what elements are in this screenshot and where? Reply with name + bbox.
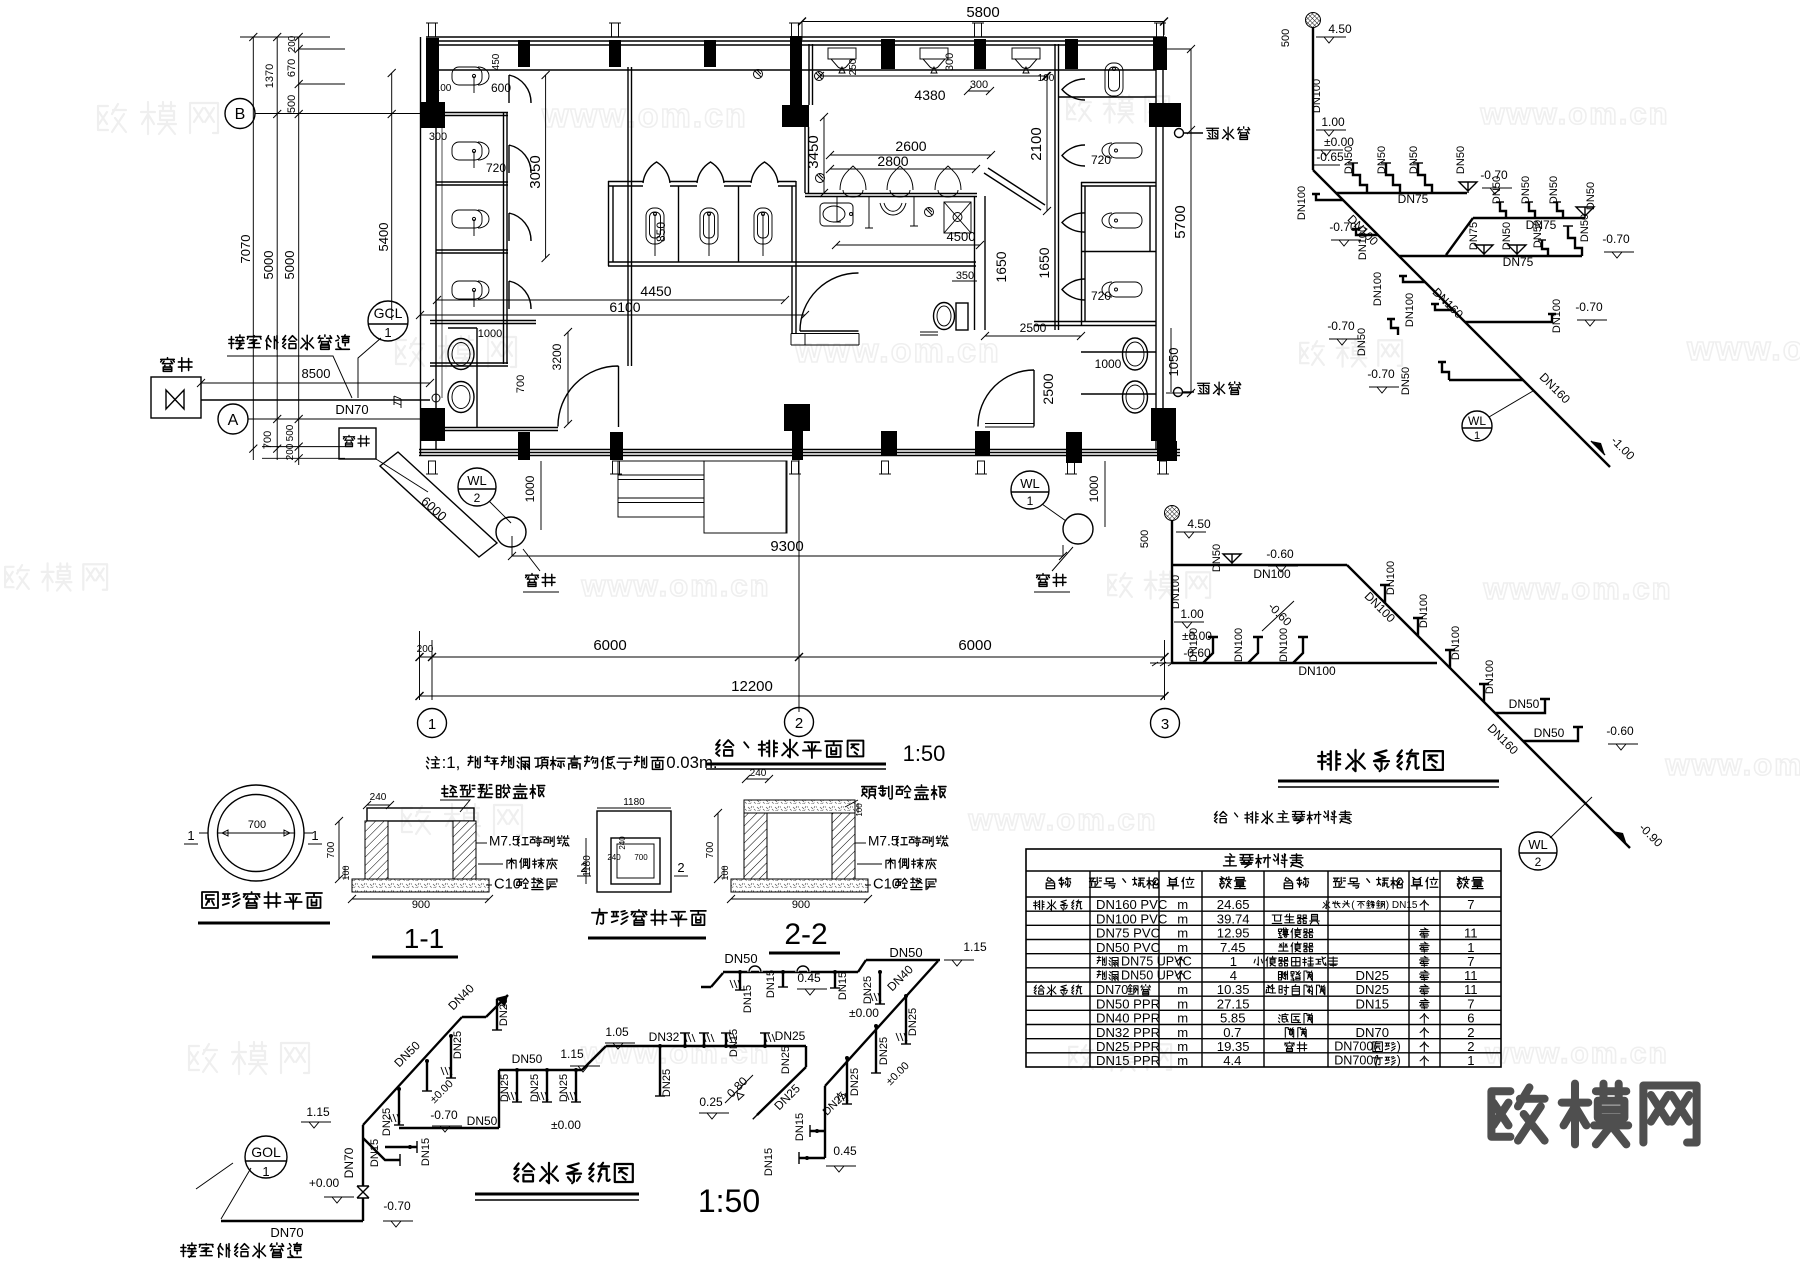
svg-text:DN50: DN50 [889,945,922,960]
svg-text:2: 2 [795,715,803,732]
svg-text:DN100: DN100 [1484,660,1496,694]
svg-text:240: 240 [370,792,387,803]
svg-text:DN100: DN100 [1170,575,1182,609]
svg-text:4450: 4450 [640,283,671,299]
svg-text:DN50: DN50 [1548,176,1560,204]
WL/2 bubble at plan [458,468,496,506]
svg-text:0.45: 0.45 [797,971,821,985]
svg-text:500: 500 [286,95,298,113]
svg-text:DN25: DN25 [775,1029,806,1043]
svg-text:DN50 PVC: DN50 PVC [1096,940,1160,955]
svg-text:DN25: DN25 [878,1037,890,1065]
svg-text:-0.70: -0.70 [383,1199,411,1213]
svg-text:4.4: 4.4 [1223,1053,1241,1068]
svg-text:DN100: DN100 [1278,628,1290,662]
svg-text:m: m [1177,1039,1188,1054]
svg-text:DN25 PPR: DN25 PPR [1096,1039,1160,1054]
svg-text:500: 500 [285,424,296,441]
label rain pipe 2 [1198,383,1210,394]
WL2 diagonal stubs [1380,585,1390,603]
svg-text:12.95: 12.95 [1217,926,1250,941]
svg-text:DN15: DN15 [1356,996,1389,1011]
svg-text:6100: 6100 [609,299,640,315]
svg-text:DN25: DN25 [862,976,874,1004]
svg-text:700: 700 [705,841,716,858]
svg-text:900: 900 [792,899,810,911]
svg-text:7: 7 [1467,996,1474,1011]
label well top-left [161,358,175,372]
svg-text:DN15: DN15 [765,970,777,998]
top dimension 5800 [802,22,1164,41]
svg-text:1: 1 [384,325,391,340]
svg-text:2500: 2500 [1040,373,1056,404]
left room urinal fixtures [452,67,489,93]
svg-text:m: m [1177,982,1188,997]
1000 drops [541,461,1105,530]
WL2 bubble [1519,832,1557,870]
svg-text:670: 670 [286,59,298,77]
bottom dimension rows [419,631,1165,712]
squat pans [646,208,664,256]
svg-text:www.om.cn: www.om.cn [580,568,770,603]
svg-text:250: 250 [848,58,859,75]
bottom right leg [799,1086,825,1158]
svg-text:DN70: DN70 [335,402,368,417]
svg-text:DN25: DN25 [529,1074,541,1102]
svg-text:1.15: 1.15 [560,1047,584,1061]
svg-text:900: 900 [412,899,430,911]
svg-text:1: 1 [1230,954,1237,969]
svg-text:11: 11 [1464,982,1478,997]
svg-text:11: 11 [1464,926,1478,941]
svg-text:1: 1 [1467,1053,1474,1068]
svg-text:-0.70: -0.70 [1367,367,1395,381]
svg-text:m: m [1177,940,1188,955]
note [427,757,440,769]
svg-text:DN15: DN15 [763,1148,775,1176]
title plan [716,740,733,756]
light watermarks [5,95,1800,1074]
WL1 DN100 stub [1312,194,1343,200]
svg-text:DN50: DN50 [1534,726,1565,740]
svg-text:): ) [1397,1054,1401,1068]
section 1-1 [367,808,474,821]
svg-text:DN32 PPR: DN32 PPR [1096,1025,1160,1040]
WL2 vent cap [1165,506,1180,521]
svg-text:1370: 1370 [264,64,276,88]
svg-text:DN100: DN100 [1372,272,1384,306]
svg-text:+0.00: +0.00 [309,1176,340,1190]
middle main DN32 [606,1045,806,1047]
svg-text:DN70: DN70 [342,1147,356,1178]
GOL diagonal drops [398,1089,400,1125]
label well under plan L [526,574,539,587]
svg-text:2: 2 [677,860,684,875]
svg-text:200: 200 [287,35,298,52]
svg-text:DN32: DN32 [649,1030,680,1044]
svg-text:DN100: DN100 [1233,628,1245,662]
label rain pipe 1 [1207,128,1219,139]
svg-text:0.7: 0.7 [1223,1025,1241,1040]
svg-text:DN25: DN25 [381,1108,393,1136]
label connect outdoor water supply [229,335,244,349]
right room fixtures [1105,63,1123,96]
svg-text:-0.70: -0.70 [1327,319,1355,333]
svg-text:WL: WL [1528,837,1548,852]
svg-text:1000: 1000 [1095,357,1122,371]
svg-text:±0.00: ±0.00 [551,1118,581,1132]
svg-text:DN50: DN50 [1356,328,1368,356]
interior dim lines [388,69,1051,428]
svg-text:7.45: 7.45 [1220,940,1245,955]
svg-text:1: 1 [428,716,436,733]
DN40 descent diagonal [825,961,938,1086]
svg-text:DN100: DN100 [1418,594,1430,628]
svg-text:DN70: DN70 [1096,983,1128,997]
svg-text:500: 500 [1139,530,1151,548]
svg-text:DN50: DN50 [1532,220,1544,248]
svg-text:DN75: DN75 [1468,222,1480,250]
circular well plan [208,785,304,881]
svg-text:-0.60: -0.60 [1606,724,1634,738]
svg-text:720: 720 [1091,289,1111,303]
svg-text:m: m [1177,1011,1188,1026]
svg-text:DN50: DN50 [1520,176,1532,204]
label precast concrete cover [862,787,876,799]
svg-text:B: B [235,106,246,123]
svg-text:2: 2 [1467,1025,1474,1040]
washroom top: counter and fixtures [805,194,977,197]
svg-text:4380: 4380 [914,87,945,103]
svg-text:DN100 PVC: DN100 PVC [1096,911,1167,926]
svg-text:6000: 6000 [593,637,626,654]
svg-text:2100: 2100 [1028,127,1045,160]
svg-text:1: 1 [187,828,194,843]
svg-text:500: 500 [1280,29,1292,47]
svg-text:DN15 PPR: DN15 PPR [1096,1053,1160,1068]
svg-text:1650: 1650 [993,251,1009,282]
WL1 vent cap [1306,13,1321,28]
small pipe risers [815,72,824,81]
svg-text:3: 3 [1161,716,1169,733]
GCL circle [368,301,408,341]
title water supply system [514,1163,534,1181]
svg-text:1: 1 [1467,940,1474,955]
svg-text:450: 450 [491,53,502,70]
svg-text:M7.5: M7.5 [868,834,899,849]
svg-text:2: 2 [474,491,481,505]
svg-text:300: 300 [429,131,447,143]
svg-text:DN50: DN50 [512,1052,543,1066]
svg-text:1.00: 1.00 [1180,607,1204,621]
svg-text:DN160 PVC: DN160 PVC [1096,897,1167,912]
WL1 branch 2 [1446,218,1585,255]
left room door fins [509,75,531,103]
stall door arcs (M shapes) [643,162,670,183]
label connect outdoor supply 2 [181,1243,196,1257]
well box with valve [151,377,201,418]
svg-text:DN25: DN25 [780,1046,792,1074]
label inner plaster 2 [886,858,895,868]
svg-text:DN15: DN15 [420,1138,432,1166]
svg-text:11: 11 [1464,968,1478,983]
4450 / 6100 dims [420,300,805,315]
svg-text:3050: 3050 [527,155,544,188]
svg-text:DN70: DN70 [270,1225,303,1240]
svg-text:DN50: DN50 [467,1114,498,1128]
svg-text:600: 600 [491,81,511,95]
svg-text:DN100: DN100 [1404,293,1416,327]
svg-text:1.00: 1.00 [1321,115,1345,129]
svg-text:DN15: DN15 [794,1113,806,1141]
svg-text:DN40 PPR: DN40 PPR [1096,1011,1160,1026]
vanity + basins left room [448,328,477,428]
svg-text:2600: 2600 [895,138,926,154]
link to middle main [582,1046,606,1070]
left room stall partitions [430,67,1156,398]
svg-text:) DN15: ) DN15 [1386,900,1418,911]
svg-text:DN15: DN15 [742,985,754,1013]
svg-text:6: 6 [1467,1011,1474,1026]
svg-text:5000: 5000 [261,251,276,280]
svg-text:5.85: 5.85 [1220,1011,1245,1026]
svg-text:100: 100 [435,83,452,94]
svg-text:1.15: 1.15 [306,1105,330,1119]
label inner plaster [507,858,516,868]
svg-text:720: 720 [1091,153,1111,167]
svg-text:4: 4 [1230,968,1237,983]
svg-text:350: 350 [956,270,974,282]
watermark om logo [1491,1087,1544,1140]
GOL supply main [221,1125,363,1221]
svg-text:1180: 1180 [623,797,645,808]
floor plan walls [419,37,1180,456]
svg-text:DN100: DN100 [1450,626,1462,660]
svg-text:WL: WL [1020,476,1040,491]
stairs [618,461,787,533]
grid circle B [225,99,255,129]
svg-text:DN100: DN100 [1253,567,1291,581]
svg-text:100: 100 [341,865,351,880]
svg-text:8500: 8500 [302,366,331,381]
svg-text:www.om.cn: www.om.cn [1484,1037,1669,1070]
svg-text:700: 700 [326,841,337,858]
column pins [429,23,436,37]
svg-text:DN15: DN15 [369,1139,381,1167]
svg-text:1:50: 1:50 [698,1183,760,1219]
svg-text:DN25: DN25 [498,998,510,1026]
svg-text:-0.70: -0.70 [1575,300,1603,314]
svg-text:700: 700 [515,375,527,393]
WL/1 bubble at plan [1011,471,1049,509]
svg-text:DN25: DN25 [907,1008,919,1036]
svg-text:m: m [1177,911,1188,926]
svg-text:7: 7 [1467,897,1474,912]
svg-text:www.om.cn: www.om.cn [541,97,748,135]
svg-text:1.15: 1.15 [963,940,987,954]
svg-text:39.74: 39.74 [1217,911,1250,926]
table caption [1215,812,1227,823]
svg-text:5400: 5400 [376,223,391,252]
svg-text:-0.60: -0.60 [1266,547,1294,561]
svg-text:DN15: DN15 [837,972,849,1000]
grid circle A [218,404,248,434]
svg-text:100: 100 [1038,73,1055,84]
svg-text:m: m [1177,926,1188,941]
svg-text:2: 2 [1535,855,1542,869]
label well under plan R [1037,574,1050,587]
svg-text:5800: 5800 [966,4,999,21]
svg-text:DN100: DN100 [1357,226,1369,260]
svg-text:www.om.cn: www.om.cn [1664,747,1800,782]
svg-text:-0.70: -0.70 [1602,232,1630,246]
svg-text:DN50: DN50 [1343,146,1355,174]
svg-text:7070: 7070 [238,235,253,264]
9300 dim [512,536,1063,556]
svg-text:1.05: 1.05 [605,1025,629,1039]
svg-text:200: 200 [417,644,434,655]
svg-text:DN50 UPVC: DN50 UPVC [1121,969,1192,983]
supply pipe DN70 to building [201,399,430,401]
svg-text:700: 700 [248,819,266,831]
svg-text:27.15: 27.15 [1217,996,1250,1011]
svg-text:4.50: 4.50 [1328,22,1352,36]
svg-text:DN700(: DN700( [1334,1054,1378,1068]
label light plastic cover [442,786,457,797]
svg-text:7: 7 [1467,954,1474,969]
lobby walls and fixtures [975,196,986,330]
svg-text:6000: 6000 [958,637,991,654]
svg-text:DN25: DN25 [452,1031,464,1059]
svg-text:m: m [1177,1025,1188,1040]
svg-text:200: 200 [285,443,296,460]
WL1 main diagonal [1313,170,1610,467]
svg-text:12200: 12200 [731,678,773,695]
square well plan [597,811,671,892]
svg-text:-0.70: -0.70 [430,1108,458,1122]
WL2 top branch [1172,564,1347,566]
svg-text:4500: 4500 [947,229,976,244]
-0.70 DN50 run [399,1070,582,1128]
svg-text:DN50: DN50 [1211,544,1223,572]
title square well plan [592,909,607,924]
diagonal partition 1470 [984,168,1045,210]
title circular well plan [202,892,218,908]
svg-text:0.45: 0.45 [833,1144,857,1158]
svg-text:DN70: DN70 [1356,1025,1389,1040]
svg-text:5000: 5000 [282,251,297,280]
svg-text:1:50: 1:50 [903,741,946,766]
svg-text:±0.00: ±0.00 [849,1006,879,1020]
svg-text:1000: 1000 [523,475,537,502]
svg-text:DN25: DN25 [1356,982,1389,997]
svg-text:DN100: DN100 [1311,79,1323,113]
WL2 stack [1171,520,1173,663]
columns (black) [426,38,439,103]
svg-text:www.om.cn: www.om.cn [1479,96,1669,131]
svg-text:1: 1 [311,828,318,843]
svg-text:A: A [228,412,239,429]
svg-text:DN50: DN50 [724,951,757,966]
svg-text:4.50: 4.50 [1187,517,1211,531]
svg-text:GCL: GCL [374,305,403,321]
svg-text:2-2: 2-2 [784,918,827,951]
svg-text:www.om.cn: www.om.cn [794,332,1001,370]
svg-text:700: 700 [634,853,648,862]
svg-text:DN50: DN50 [1501,222,1513,250]
svg-text:2: 2 [580,860,587,875]
svg-text:3200: 3200 [550,343,564,370]
label well 2 [343,435,354,446]
svg-text:1: 1 [1474,430,1480,442]
svg-text:1000: 1000 [1087,475,1101,502]
svg-text:DN75: DN75 [1398,192,1429,206]
section 2-2 [744,800,855,813]
svg-text::1,: :1, [442,753,461,772]
svg-text:100: 100 [855,803,864,817]
right top main [701,960,940,987]
svg-text:3450: 3450 [805,135,822,168]
WL1 stubs on diagonal [1352,229,1378,235]
svg-text:DN50: DN50 [1376,146,1388,174]
svg-text:2: 2 [1467,1039,1474,1054]
svg-text:0.03m.: 0.03m. [666,753,717,772]
left dimension chains [240,33,426,465]
well box 2 [339,428,376,459]
svg-text:700: 700 [262,431,274,449]
WL1 branch 1 [1336,192,1467,194]
svg-text:1-1: 1-1 [404,923,444,954]
svg-text:DN75 UPVC: DN75 UPVC [1121,955,1192,969]
svg-text:240: 240 [607,853,621,862]
svg-text:DN25: DN25 [1356,968,1389,983]
svg-text:DN100: DN100 [1296,186,1308,220]
svg-text:1: 1 [262,1164,269,1179]
svg-text:DN25: DN25 [558,1074,570,1102]
svg-text:5700: 5700 [1172,205,1189,238]
WL1 branch 3 [1399,255,1582,257]
svg-text:-0.70: -0.70 [1329,220,1357,234]
svg-text:www.om.cn: www.om.cn [1482,571,1672,606]
svg-text:DN700(: DN700( [1334,1040,1378,1054]
GOL riser diagonal [363,995,508,1125]
svg-text:DN100: DN100 [1188,628,1200,662]
svg-text:1000: 1000 [478,328,502,340]
svg-text:m: m [1177,897,1188,912]
svg-text:10.35: 10.35 [1217,982,1250,997]
svg-text:850: 850 [654,222,668,242]
svg-text:GOL: GOL [251,1144,281,1160]
svg-text:M7.5: M7.5 [489,834,520,849]
svg-text:19.35: 19.35 [1217,1039,1250,1054]
title drainage system [1318,751,1340,770]
lobby doors [800,273,859,331]
right room [1034,44,1156,394]
svg-text:1650: 1650 [1036,247,1052,278]
svg-text:DN50: DN50 [1400,367,1412,395]
svg-text:DN50: DN50 [1509,697,1540,711]
svg-text:DN25: DN25 [849,1068,861,1096]
svg-text:WL: WL [467,473,487,488]
svg-text:240: 240 [750,768,767,779]
svg-text:www.om.cn: www.om.cn [967,802,1157,837]
svg-text:DN50: DN50 [1585,182,1597,210]
svg-text:m: m [1177,996,1188,1011]
svg-text:DN100: DN100 [1298,664,1336,678]
svg-text:DN75 PVC: DN75 PVC [1096,926,1160,941]
ramp slab [380,452,497,557]
svg-text:WL: WL [1468,414,1486,428]
